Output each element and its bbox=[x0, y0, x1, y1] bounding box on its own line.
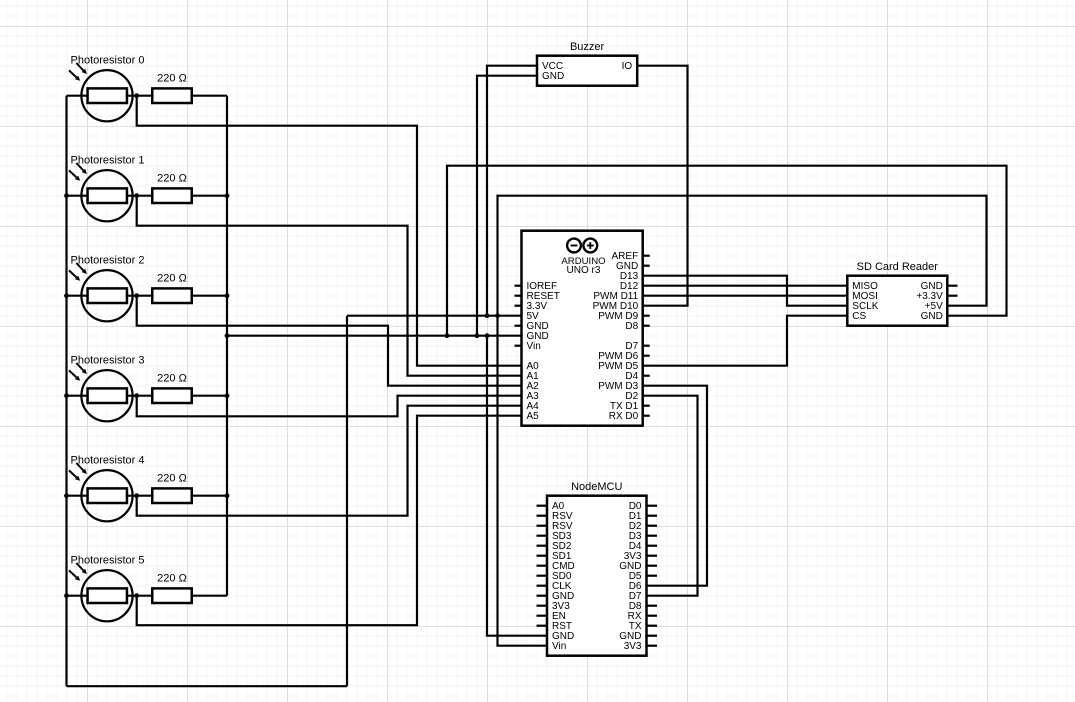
wire GND: Arduino GND pin to resistor rail bbox=[227, 335, 522, 337]
pin Arduino A0 (left, y=365.7) bbox=[527, 361, 540, 372]
svg-text:Vin: Vin bbox=[552, 641, 566, 652]
pin Arduino D4 (right, y=375.7) bbox=[625, 371, 649, 382]
pin NodeMCU SD2 (left, row 5) bbox=[537, 541, 572, 552]
pin NodeMCU D2 (right, row 3) bbox=[629, 521, 657, 532]
pin NodeMCU GND (left, row 10) bbox=[537, 591, 575, 602]
wire Photoresistor divider tap to Arduino A5 bbox=[137, 416, 522, 626]
junction 5V rail / Photoresistor 5 bbox=[64, 593, 69, 598]
junction 5V rail / Photoresistor 1 bbox=[64, 193, 69, 198]
pin NodeMCU D4 (right, row 5) bbox=[629, 541, 657, 552]
wire Photoresistor 0 left lead bbox=[67, 95, 152, 97]
junction divider tap A5 bbox=[134, 593, 139, 598]
wire Photoresistor 3 left lead bbox=[67, 395, 152, 397]
junction divider tap A0 bbox=[134, 93, 139, 98]
svg-text:GND: GND bbox=[542, 71, 564, 82]
junction GND / SD branch bbox=[445, 333, 450, 338]
pin Arduino A3 (left, y=395.7) bbox=[527, 391, 540, 402]
svg-text:220 Ω: 220 Ω bbox=[157, 572, 187, 584]
pin NodeMCU 3V3 (left, row 11) bbox=[537, 601, 571, 612]
resistor R2 220 ohm bbox=[152, 288, 192, 303]
pin NodeMCU RST (left, row 13) bbox=[537, 621, 573, 632]
junction GND / NodeMCU branch bbox=[485, 333, 490, 338]
pin Arduino A1 (left, y=375.7) bbox=[527, 371, 540, 382]
junction divider tap A4 bbox=[134, 493, 139, 498]
svg-text:220 Ω: 220 Ω bbox=[157, 372, 187, 384]
node 5V net bbox=[67, 66, 987, 687]
pin NodeMCU D6 (right, row 9) bbox=[629, 581, 642, 592]
wire GND: branch to NodeMCU GND bbox=[487, 336, 547, 636]
wire Photoresistor 1 left lead bbox=[67, 195, 152, 197]
pin Arduino RESET (left, y=295.7) bbox=[515, 291, 560, 302]
wire resistor R4 output lead bbox=[193, 495, 227, 497]
svg-text:Photoresistor 1: Photoresistor 1 bbox=[71, 155, 145, 167]
pin NodeMCU Vin (left, row 15) bbox=[552, 641, 566, 652]
pin Arduino PWM D6 (right, y=355.7) bbox=[598, 351, 650, 362]
pin Arduino 3.3V (left, y=305.7) bbox=[515, 301, 548, 312]
wire Photoresistor divider tap to Arduino A2 bbox=[137, 296, 522, 386]
pin NodeMCU SD3 (left, row 4) bbox=[537, 531, 572, 542]
svg-text:Photoresistor 3: Photoresistor 3 bbox=[71, 355, 145, 367]
junction 5V / Buzzer VCC bbox=[485, 313, 490, 318]
wire Arduino D12 to SD MISO bbox=[643, 285, 848, 287]
resistor R1 220 ohm bbox=[152, 188, 192, 203]
wire 5V: SD +5V loop and NodeMCU Vin branch bbox=[498, 196, 987, 646]
pin NodeMCU D7 (right, row 10) bbox=[629, 591, 642, 602]
photoresistor "Photoresistor 0" bbox=[69, 63, 133, 121]
wire resistor R5 output lead bbox=[193, 595, 227, 597]
junction GND / Buzzer branch bbox=[475, 333, 480, 338]
svg-text:220 Ω: 220 Ω bbox=[157, 72, 187, 84]
pin NodeMCU D3 (right, row 4) bbox=[629, 531, 657, 542]
NodeMCU body bbox=[547, 496, 647, 656]
svg-text:3V3: 3V3 bbox=[624, 641, 642, 652]
pin Arduino PWM D5 (right, y=365.7) bbox=[598, 361, 638, 372]
wire 5V: bottom rail bbox=[67, 685, 348, 687]
svg-text:A5: A5 bbox=[527, 411, 540, 422]
resistor R4 220 ohm bbox=[152, 488, 192, 503]
wire resistor R1 output lead bbox=[193, 195, 227, 197]
junction GND rail / R1 bbox=[225, 193, 230, 198]
wire resistor R0 output lead bbox=[193, 95, 227, 97]
svg-text:Photoresistor 4: Photoresistor 4 bbox=[71, 455, 145, 467]
wire Arduino D11 to SD MOSI bbox=[643, 295, 848, 297]
wire Arduino D13 to SD SCLK bbox=[643, 276, 848, 306]
wire 5V: left rail vertical bbox=[65, 96, 67, 687]
svg-text:220 Ω: 220 Ω bbox=[157, 472, 187, 484]
svg-text:Photoresistor 2: Photoresistor 2 bbox=[71, 255, 145, 267]
pin NodeMCU D0 (right, row 1) bbox=[629, 501, 657, 512]
wire resistor R3 output lead bbox=[193, 395, 227, 397]
photoresistor "Photoresistor 2" bbox=[69, 263, 133, 321]
photoresistor "Photoresistor 4" bbox=[69, 463, 133, 521]
svg-text:220 Ω: 220 Ω bbox=[157, 272, 187, 284]
pin NodeMCU CMD (left, row 7) bbox=[537, 561, 575, 572]
junction GND / resistor rail bbox=[225, 333, 230, 338]
svg-text:CS: CS bbox=[852, 311, 866, 322]
svg-text:Vin: Vin bbox=[527, 341, 541, 352]
junction divider tap A1 bbox=[134, 193, 139, 198]
svg-text:Photoresistor 0: Photoresistor 0 bbox=[71, 55, 145, 67]
pin NodeMCU D8 (right, row 11) bbox=[629, 601, 657, 612]
pin Arduino AREF (right, y=255.7) bbox=[612, 251, 650, 262]
pin NodeMCU GND (right, row 14) bbox=[619, 631, 657, 642]
Arduino logo bbox=[567, 239, 597, 253]
pin Arduino D12 (right, y=285.7) bbox=[620, 281, 639, 292]
resistor R3 220 ohm bbox=[152, 388, 192, 403]
wire Photoresistor 2 left lead bbox=[67, 295, 152, 297]
pin NodeMCU EN (left, row 12) bbox=[537, 611, 566, 622]
wire 5V: branch to Buzzer VCC bbox=[487, 66, 537, 316]
pin Arduino GND (left, y=335.7) bbox=[527, 331, 549, 342]
wire Arduino D3 to NodeMCU D6 bbox=[643, 386, 707, 586]
pin NodeMCU SD0 (left, row 8) bbox=[537, 571, 572, 582]
junction GND rail / R2 bbox=[225, 293, 230, 298]
photoresistor "Photoresistor 1" bbox=[69, 163, 133, 221]
pin NodeMCU GND (right, row 7) bbox=[619, 561, 657, 572]
pin Arduino D8 (right, y=325.7) bbox=[625, 321, 649, 332]
junction divider tap A3 bbox=[134, 393, 139, 398]
svg-text:220 Ω: 220 Ω bbox=[157, 172, 187, 184]
wire GND: branch to SD GND bbox=[447, 166, 1007, 336]
wire Photoresistor 5 left lead bbox=[67, 595, 152, 597]
svg-text:SD Card Reader: SD Card Reader bbox=[857, 261, 939, 273]
junction divider tap A2 bbox=[134, 293, 139, 298]
wire SD CS to Arduino D5 bbox=[643, 316, 848, 366]
pin Arduino GND (right, y=265.7) bbox=[616, 261, 650, 272]
svg-text:Buzzer: Buzzer bbox=[570, 41, 605, 53]
pin Arduino A4 (left, y=405.7) bbox=[527, 401, 540, 412]
junction 5V / NodeMCU Vin riser bbox=[495, 313, 500, 318]
photoresistor "Photoresistor 5" bbox=[69, 563, 133, 621]
wire Photoresistor divider tap to Arduino A1 bbox=[137, 196, 522, 376]
pin NodeMCU SD1 (left, row 6) bbox=[537, 551, 572, 562]
pin Arduino D13 (right, y=275.7) bbox=[620, 271, 639, 282]
pin SD +5V (right) bbox=[925, 301, 943, 312]
pin SD +3.3V (right) bbox=[916, 291, 957, 302]
pin NodeMCU RSV (left, row 3) bbox=[537, 521, 573, 532]
SD Card Reader body bbox=[847, 276, 947, 326]
pin NodeMCU D1 (right, row 2) bbox=[629, 511, 657, 522]
wire Photoresistor divider tap to Arduino A0 bbox=[137, 96, 522, 366]
wire GND: branch to Buzzer GND bbox=[477, 76, 537, 336]
svg-text:D8: D8 bbox=[625, 321, 638, 332]
microcontroller U1 ARDUINO UNO r3 body bbox=[522, 231, 643, 426]
svg-text:IO: IO bbox=[622, 61, 633, 72]
svg-text:Photoresistor 5: Photoresistor 5 bbox=[71, 555, 145, 567]
junction GND rail / R4 bbox=[225, 493, 230, 498]
resistor R5 220 ohm bbox=[152, 588, 192, 603]
wire 5V: Arduino 5V pin to corner x=347 bbox=[347, 315, 522, 317]
pin Arduino 5V (left, y=315.7) bbox=[527, 311, 540, 322]
pin SD GND (right) bbox=[921, 311, 943, 322]
svg-text:RX D0: RX D0 bbox=[609, 411, 639, 422]
svg-text:UNO r3: UNO r3 bbox=[567, 265, 601, 276]
buzzer component body bbox=[537, 56, 637, 86]
pin Arduino PWM D10 (right, y=305.7) bbox=[593, 301, 639, 312]
junction GND rail / R3 bbox=[225, 393, 230, 398]
wire Arduino D2 to NodeMCU D7 bbox=[643, 396, 698, 596]
pin Arduino TX D1 (right, y=405.7) bbox=[610, 401, 650, 412]
pin Arduino IOREF (left, y=285.7) bbox=[515, 281, 558, 292]
pin Arduino Vin (left, y=345.7) bbox=[515, 341, 541, 352]
pin Arduino GND (left, y=325.7) bbox=[515, 321, 549, 332]
wire Photoresistor 4 left lead bbox=[67, 495, 152, 497]
pin Arduino D7 (right, y=345.7) bbox=[625, 341, 649, 352]
pin NodeMCU D5 (right, row 8) bbox=[629, 571, 657, 582]
resistor R0 220 ohm bbox=[152, 88, 192, 103]
pin NodeMCU GND (left, row 14) bbox=[552, 631, 574, 642]
wire Buzzer IO to Arduino D10 bbox=[637, 66, 687, 306]
pin NodeMCU RSV (left, row 2) bbox=[537, 511, 573, 522]
pin Arduino A2 (left, y=385.7) bbox=[527, 381, 540, 392]
pin NodeMCU TX (right, row 13) bbox=[629, 621, 657, 632]
junction 5V rail / Photoresistor 3 bbox=[64, 393, 69, 398]
pin NodeMCU CLK (left, row 9) bbox=[537, 581, 572, 592]
wire GND: resistor rail vertical bbox=[226, 96, 228, 596]
pin Arduino D2 (right, y=395.7) bbox=[625, 391, 638, 402]
node GND net bbox=[225, 76, 1007, 636]
pin NodeMCU 3V3 (right, row 15) bbox=[624, 641, 657, 652]
pin SD GND (right) bbox=[921, 281, 958, 292]
photoresistor "Photoresistor 3" bbox=[69, 363, 133, 421]
pin Arduino PWM D9 (right, y=315.7) bbox=[598, 311, 650, 322]
svg-text:NodeMCU: NodeMCU bbox=[571, 481, 622, 493]
pin Arduino PWM D3 (right, y=385.7) bbox=[598, 381, 638, 392]
svg-text:GND: GND bbox=[921, 311, 943, 322]
pin NodeMCU RX (right, row 12) bbox=[628, 611, 657, 622]
wire 5V: vertical drop x=347 bbox=[346, 316, 348, 687]
pin Arduino RX D0 (right, y=415.7) bbox=[609, 411, 650, 422]
wire Photoresistor divider tap to Arduino A4 bbox=[137, 406, 522, 516]
junction 5V rail / Photoresistor 2 bbox=[64, 293, 69, 298]
pin NodeMCU 3V3 (right, row 6) bbox=[624, 551, 657, 562]
junction 5V rail / Photoresistor 4 bbox=[64, 493, 69, 498]
pin NodeMCU A0 (left, row 1) bbox=[537, 501, 565, 512]
pin Arduino PWM D11 (right, y=295.7) bbox=[593, 291, 638, 302]
wire Photoresistor divider tap to Arduino A3 bbox=[137, 396, 522, 417]
pin Arduino A5 (left, y=415.7) bbox=[527, 411, 540, 422]
wire resistor R2 output lead bbox=[193, 295, 227, 297]
